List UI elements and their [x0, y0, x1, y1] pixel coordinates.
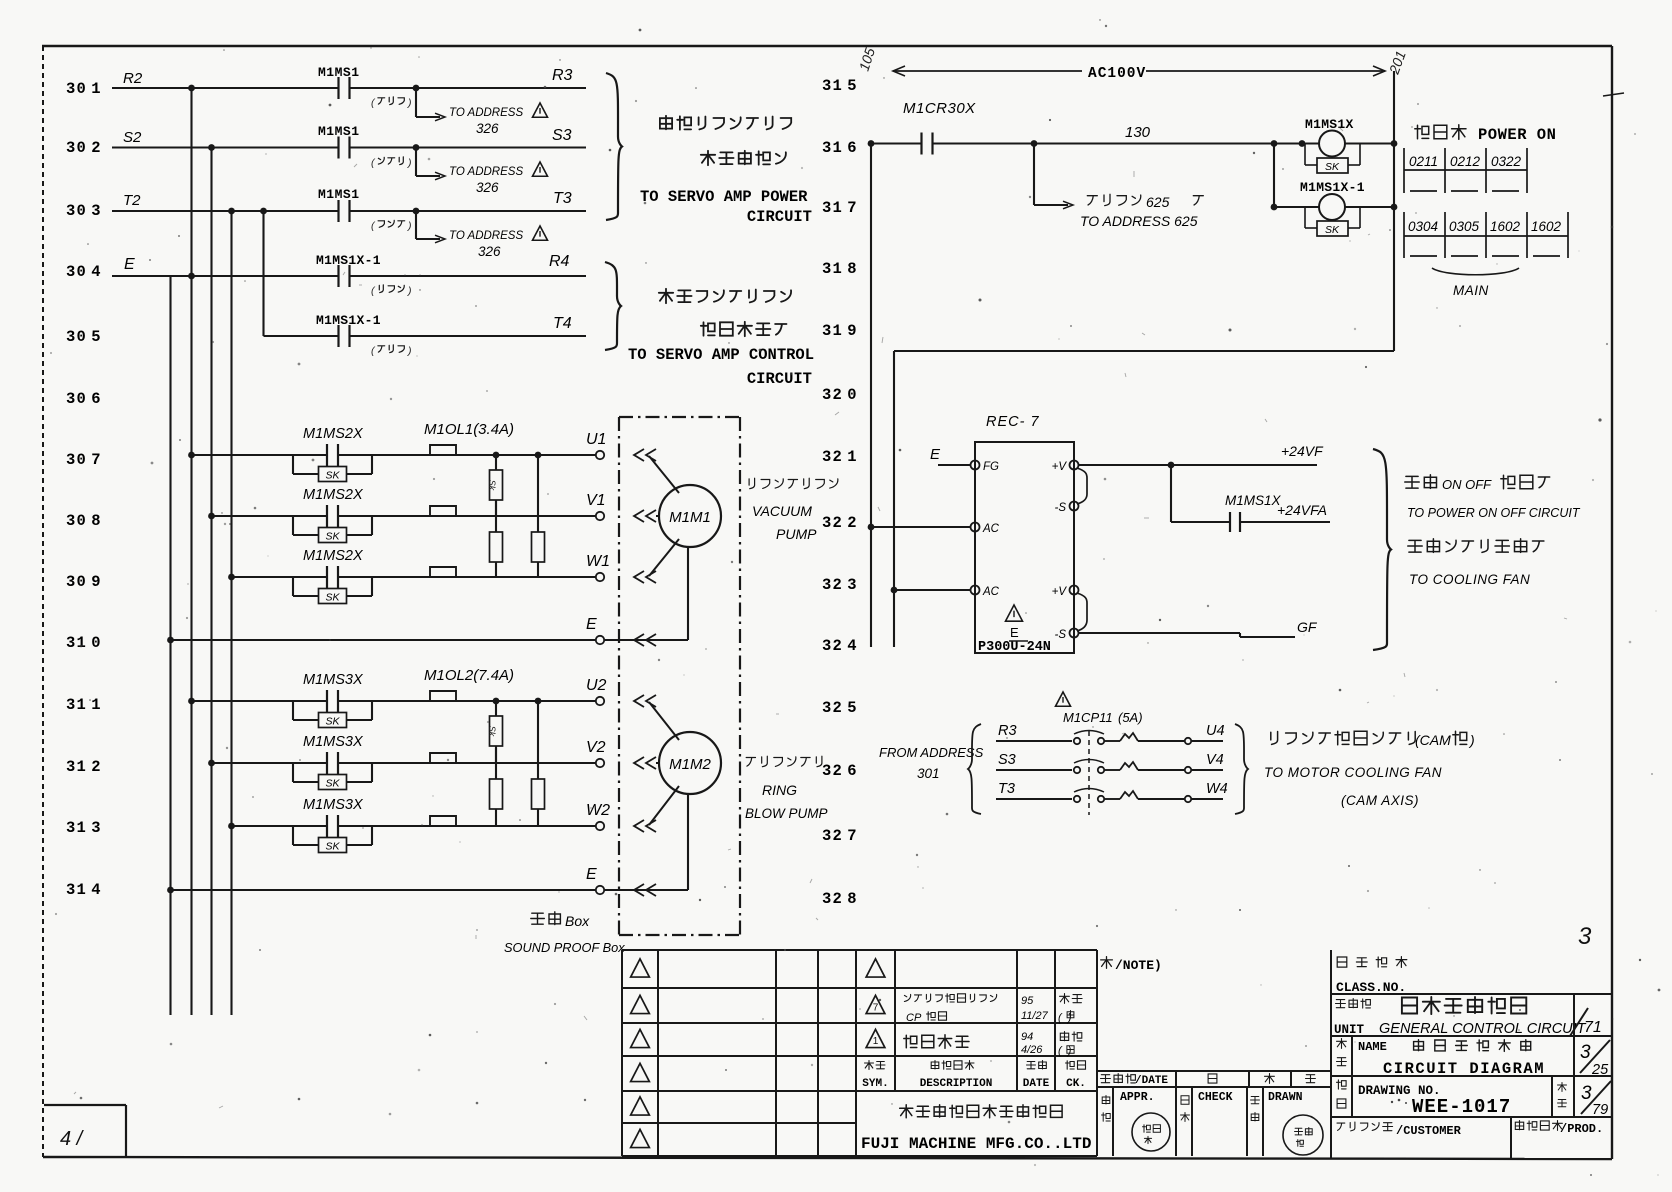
- svg-text:(CAM: (CAM: [1415, 732, 1451, 748]
- svg-text:94: 94: [1021, 1031, 1033, 1043]
- svg-text:M1MS1X-1: M1MS1X-1: [316, 313, 381, 328]
- svg-text:SK: SK: [325, 469, 340, 481]
- svg-text:SK: SK: [325, 530, 340, 542]
- svg-text:4/26: 4/26: [1021, 1044, 1043, 1056]
- svg-text:CIRCUIT: CIRCUIT: [747, 208, 812, 226]
- svg-text:R3: R3: [998, 723, 1017, 739]
- svg-text:+V: +V: [1052, 461, 1068, 473]
- svg-text:/DATE: /DATE: [1135, 1075, 1168, 1087]
- svg-text:M1OL2(7.4A): M1OL2(7.4A): [424, 667, 514, 684]
- svg-text:32 5: 32 5: [822, 699, 858, 717]
- svg-text:1: 1: [873, 1036, 879, 1047]
- svg-text:M1MS2X: M1MS2X: [303, 487, 364, 503]
- svg-text:32 0: 32 0: [822, 386, 858, 404]
- svg-text:PUMP: PUMP: [776, 526, 817, 542]
- svg-text:/PROD.: /PROD.: [1560, 1122, 1603, 1136]
- svg-text:32 4: 32 4: [822, 637, 858, 655]
- svg-text:TO SERVO AMP CONTROL: TO SERVO AMP CONTROL: [628, 346, 814, 364]
- svg-text:M1CR30X: M1CR30X: [903, 100, 976, 117]
- svg-text:VACUUM: VACUUM: [752, 503, 812, 519]
- svg-text:M1MS3X: M1MS3X: [303, 672, 364, 688]
- svg-text:POWER ON: POWER ON: [1478, 126, 1556, 144]
- svg-text:/CUSTOMER: /CUSTOMER: [1396, 1124, 1462, 1138]
- svg-text:3: 3: [1581, 1083, 1592, 1104]
- svg-text:DESCRIPTION: DESCRIPTION: [920, 1078, 993, 1090]
- svg-text:V4: V4: [1206, 752, 1224, 768]
- svg-text:+24VFA: +24VFA: [1277, 502, 1327, 518]
- svg-text:P300U-24N: P300U-24N: [978, 640, 1051, 655]
- svg-text:31 4: 31 4: [66, 881, 102, 899]
- svg-text:30 3: 30 3: [66, 202, 102, 220]
- svg-text:AC100V: AC100V: [1088, 66, 1146, 82]
- svg-text:TO MOTOR COOLING FAN: TO MOTOR COOLING FAN: [1264, 765, 1442, 780]
- svg-text:W2: W2: [586, 802, 610, 819]
- svg-text:T3: T3: [553, 190, 572, 207]
- svg-text:E: E: [586, 866, 597, 883]
- svg-text:TO COOLING FAN: TO COOLING FAN: [1409, 572, 1530, 587]
- svg-text:TO POWER ON OFF CIRCUIT: TO POWER ON OFF CIRCUIT: [1407, 506, 1581, 520]
- svg-text:M1CP11: M1CP11: [1063, 710, 1113, 725]
- svg-text:( ): ( ): [1058, 1045, 1072, 1057]
- svg-text:DRAWN: DRAWN: [1268, 1091, 1303, 1104]
- svg-text:M1MS3X: M1MS3X: [303, 734, 364, 750]
- svg-text:Sk: Sk: [487, 726, 497, 737]
- svg-text:32 2: 32 2: [822, 514, 858, 532]
- svg-text:30 8: 30 8: [66, 512, 102, 530]
- svg-text:CK.: CK.: [1066, 1078, 1086, 1090]
- svg-text:E: E: [586, 616, 597, 633]
- svg-text:S3: S3: [998, 752, 1016, 768]
- svg-text:E: E: [930, 446, 941, 463]
- svg-text:WEE-1017: WEE-1017: [1412, 1096, 1511, 1118]
- svg-text:W1: W1: [586, 553, 610, 570]
- svg-text:(5A): (5A): [1118, 710, 1143, 725]
- svg-text:31 5: 31 5: [822, 77, 858, 95]
- svg-text:32 8: 32 8: [822, 890, 858, 908]
- svg-text:TO ADDRESS 625: TO ADDRESS 625: [1080, 213, 1198, 229]
- svg-text:0305: 0305: [1449, 219, 1480, 234]
- svg-text:31 1: 31 1: [66, 696, 102, 714]
- svg-text:S3: S3: [552, 127, 572, 144]
- svg-text:BLOW PUMP: BLOW PUMP: [745, 806, 828, 821]
- svg-text:TO ADDRESS: TO ADDRESS: [449, 107, 523, 119]
- svg-text:FG: FG: [983, 461, 999, 473]
- svg-text:FROM ADDRESS: FROM ADDRESS: [879, 745, 984, 760]
- svg-text:M1MS2X: M1MS2X: [303, 426, 364, 442]
- svg-text:AC: AC: [982, 586, 1000, 598]
- svg-text:30 4: 30 4: [66, 263, 102, 281]
- svg-text:32 3: 32 3: [822, 576, 858, 594]
- svg-text:SK: SK: [325, 777, 340, 789]
- svg-text:95: 95: [1021, 995, 1034, 1007]
- svg-text:130: 130: [1125, 124, 1151, 141]
- svg-text:0211: 0211: [1409, 154, 1438, 169]
- svg-text:Sk: Sk: [487, 480, 497, 491]
- svg-text:GENERAL CONTROL CIRCUIT: GENERAL CONTROL CIRCUIT: [1379, 1021, 1587, 1037]
- svg-text:4 /: 4 /: [60, 1128, 85, 1150]
- svg-text:M1MS1X-1: M1MS1X-1: [1300, 180, 1365, 195]
- svg-text:NAME: NAME: [1358, 1040, 1387, 1054]
- svg-text:SK: SK: [325, 715, 340, 727]
- svg-text:CIRCUIT DIAGRAM: CIRCUIT DIAGRAM: [1383, 1060, 1545, 1078]
- svg-text:TO SERVO AMP POWER: TO SERVO AMP POWER: [640, 188, 808, 206]
- svg-text:M1MS1: M1MS1: [318, 187, 360, 202]
- svg-text:SK: SK: [325, 591, 340, 603]
- svg-text:M1MS1X-1: M1MS1X-1: [316, 253, 381, 268]
- svg-text:T3: T3: [998, 781, 1015, 797]
- svg-text:31 2: 31 2: [66, 758, 102, 776]
- svg-text:-S: -S: [1055, 502, 1067, 514]
- svg-text:SK: SK: [1325, 161, 1340, 173]
- svg-text:V2: V2: [586, 739, 606, 756]
- svg-text:25: 25: [1591, 1062, 1609, 1078]
- svg-text:R3: R3: [552, 67, 573, 84]
- svg-text:M1OL1(3.4A): M1OL1(3.4A): [424, 421, 514, 438]
- svg-text:SK: SK: [325, 840, 340, 852]
- svg-text:Box: Box: [565, 913, 590, 929]
- svg-text:11/27: 11/27: [1021, 1010, 1049, 1022]
- svg-text:CP: CP: [906, 1012, 922, 1024]
- svg-text:M1M2: M1M2: [669, 756, 711, 773]
- svg-text:(CAM AXIS): (CAM AXIS): [1341, 793, 1419, 808]
- svg-text:SYM.: SYM.: [862, 1078, 888, 1090]
- svg-text:U2: U2: [586, 677, 607, 694]
- svg-text:326: 326: [476, 121, 499, 136]
- svg-text:APPR.: APPR.: [1120, 1091, 1155, 1104]
- svg-text:CHECK: CHECK: [1198, 1091, 1233, 1104]
- svg-text:1602: 1602: [1531, 219, 1562, 234]
- svg-text:301: 301: [917, 766, 940, 781]
- svg-text:M1M1: M1M1: [669, 509, 711, 526]
- svg-text:0212: 0212: [1450, 154, 1481, 169]
- svg-text:S2: S2: [123, 129, 142, 146]
- svg-text:/NOTE): /NOTE): [1115, 958, 1162, 973]
- svg-text:RING: RING: [762, 782, 797, 798]
- svg-text:M1MS1X: M1MS1X: [1225, 493, 1282, 508]
- svg-text:30 6: 30 6: [66, 390, 102, 408]
- svg-text:E: E: [1010, 625, 1019, 640]
- svg-text:M1MS2X: M1MS2X: [303, 548, 364, 564]
- svg-text:TO ADDRESS: TO ADDRESS: [449, 166, 523, 178]
- svg-text:3: 3: [1580, 1042, 1591, 1063]
- svg-text:ON OFF: ON OFF: [1442, 477, 1492, 492]
- svg-text:R4: R4: [549, 253, 570, 270]
- svg-text:30 7: 30 7: [66, 451, 102, 469]
- svg-text:TO ADDRESS: TO ADDRESS: [449, 230, 523, 242]
- svg-text:U1: U1: [586, 431, 606, 448]
- svg-text:7: 7: [873, 1003, 879, 1014]
- svg-text:M1MS3X: M1MS3X: [303, 797, 364, 813]
- svg-text:32 6: 32 6: [822, 762, 858, 780]
- svg-text:M1MS1: M1MS1: [318, 65, 360, 80]
- svg-text:30 2: 30 2: [66, 139, 102, 157]
- svg-text:U4: U4: [1206, 723, 1225, 739]
- svg-text:3: 3: [1578, 923, 1592, 950]
- svg-text:0322: 0322: [1491, 154, 1522, 169]
- svg-text:31 0: 31 0: [66, 634, 102, 652]
- svg-text:31 8: 31 8: [822, 260, 858, 278]
- svg-text:0304: 0304: [1408, 219, 1438, 234]
- svg-text:CIRCUIT: CIRCUIT: [747, 370, 812, 388]
- svg-text:625: 625: [1146, 194, 1170, 210]
- svg-text:REC- 7: REC- 7: [986, 414, 1040, 430]
- svg-text:T2: T2: [123, 192, 141, 209]
- svg-text:V1: V1: [586, 492, 606, 509]
- svg-text:M1MS1X: M1MS1X: [1305, 117, 1354, 132]
- svg-text:UNIT: UNIT: [1334, 1023, 1365, 1037]
- svg-text:71: 71: [1584, 1019, 1602, 1036]
- svg-text:30 5: 30 5: [66, 328, 102, 346]
- svg-text:T4: T4: [553, 315, 572, 332]
- svg-text:31 9: 31 9: [822, 322, 858, 340]
- svg-text:M1MS1: M1MS1: [318, 124, 360, 139]
- svg-text:W4: W4: [1206, 781, 1228, 797]
- svg-text:30 1: 30 1: [66, 80, 102, 98]
- svg-text:DATE: DATE: [1023, 1078, 1050, 1090]
- svg-text:326: 326: [476, 180, 499, 195]
- svg-text:CLASS.NO.: CLASS.NO.: [1336, 980, 1406, 995]
- svg-text:1602: 1602: [1490, 219, 1521, 234]
- svg-text:32 7: 32 7: [822, 827, 858, 845]
- svg-text:32 1: 32 1: [822, 448, 858, 466]
- svg-text:GF: GF: [1297, 619, 1318, 635]
- svg-text:30 9: 30 9: [66, 573, 102, 591]
- svg-text:+V: +V: [1052, 586, 1068, 598]
- svg-text:31 7: 31 7: [822, 199, 858, 217]
- svg-text:SK: SK: [1325, 224, 1340, 236]
- svg-text:326: 326: [478, 244, 501, 259]
- svg-text:+24VF: +24VF: [1281, 443, 1324, 459]
- svg-text:-S: -S: [1055, 629, 1067, 641]
- svg-text:SOUND PROOF Box: SOUND PROOF Box: [504, 940, 625, 955]
- svg-text:31 3: 31 3: [66, 819, 102, 837]
- svg-text:R2: R2: [123, 70, 143, 87]
- svg-text:FUJI MACHINE MFG.CO..LTD: FUJI MACHINE MFG.CO..LTD: [861, 1135, 1091, 1153]
- svg-text:31 6: 31 6: [822, 139, 858, 157]
- svg-text:79: 79: [1592, 1102, 1608, 1118]
- svg-text:MAIN: MAIN: [1453, 283, 1489, 298]
- svg-text:AC: AC: [982, 523, 1000, 535]
- svg-text:E: E: [124, 256, 135, 273]
